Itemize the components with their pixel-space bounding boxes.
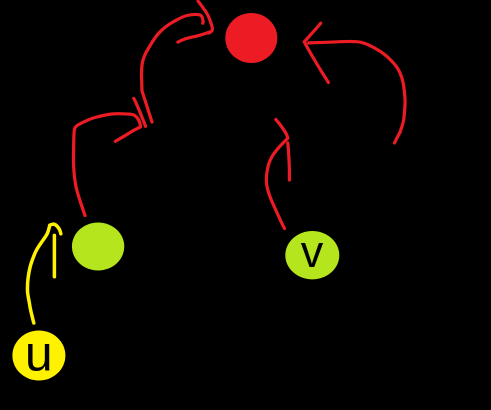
node left (lime circle) [72,223,124,271]
arrowhead E barb down [53,235,57,276]
arrowhead D barb down [288,143,290,180]
arrowhead C barb bottom [304,42,328,83]
node u (yellow circle) [12,331,65,381]
node root (red circle) [225,13,277,63]
node v (lime circle) [285,231,339,279]
arrowhead A barb bottom [178,32,211,42]
arrowhead B slash [134,98,146,126]
wire: red arrow A shaft (from junction up to red circle) [142,15,204,122]
arrowhead D barb up-left [276,120,288,139]
svg-text:v: v [301,226,324,277]
wire: red arch arrow B (from left green node up to junction) [73,114,140,216]
arrowhead C barb top [304,23,320,42]
wire: red arrow C (right arc into red circle) [309,41,405,143]
svg-text:u: u [25,326,53,382]
wire: red arrow D (from v node up, lambda shape) [266,138,287,228]
arrowhead A barb top [198,1,212,33]
wire: yellow arrow E (from u node to left green node) [27,224,60,323]
